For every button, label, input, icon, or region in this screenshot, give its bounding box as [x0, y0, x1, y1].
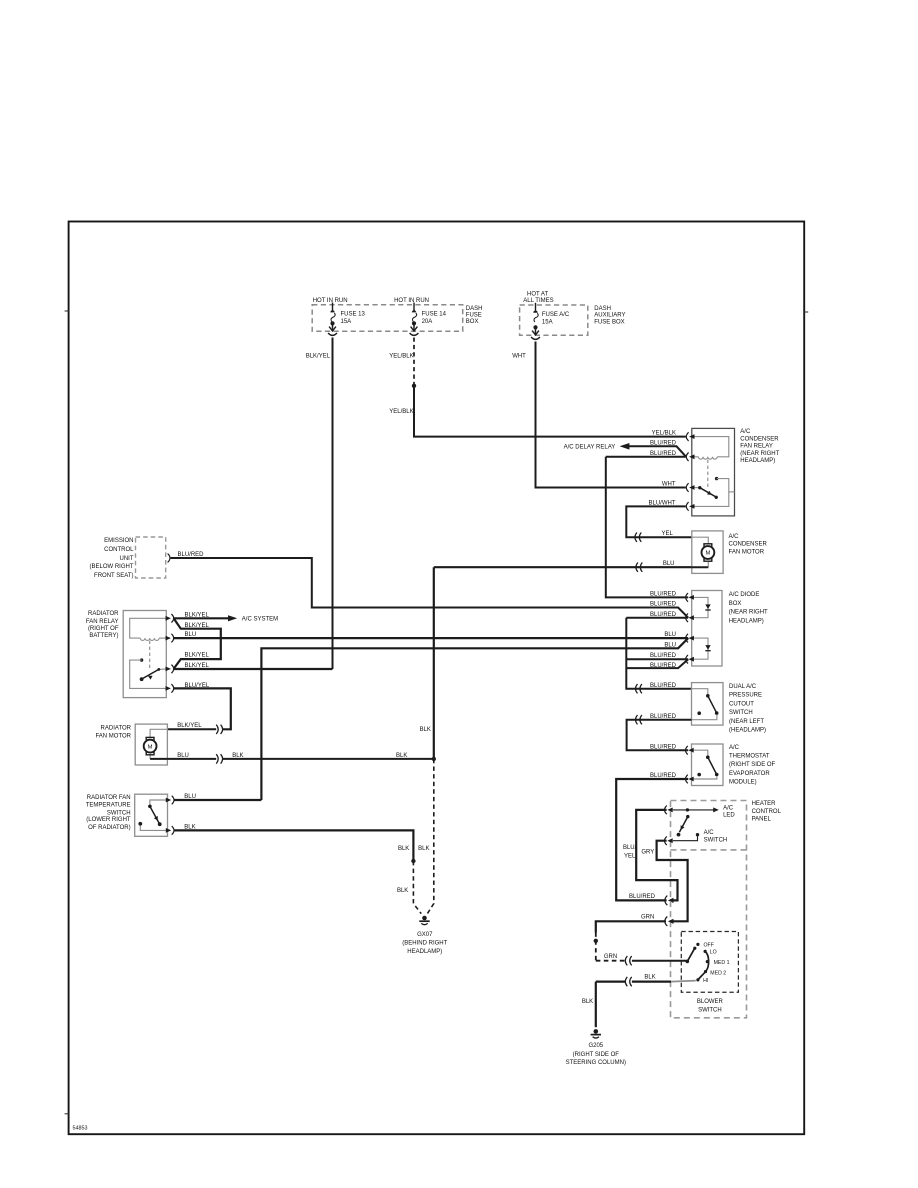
- wire BLK temp switch pin2: [174, 830, 414, 861]
- radiator fan motor box: [135, 724, 167, 765]
- A/C switch contact: [696, 833, 699, 836]
- svg-text:PANEL: PANEL: [752, 817, 772, 823]
- svg-text:MED 2: MED 2: [710, 971, 726, 977]
- svg-text:GRY: GRY: [641, 849, 654, 855]
- thermostat pin 2 connector: [686, 775, 694, 784]
- wire BLK/YEL motor pigtail: [167, 728, 216, 730]
- svg-text:A/C: A/C: [704, 830, 715, 836]
- junction BLK-ground splice: [411, 859, 415, 863]
- wire BLU motor pigtail: [167, 758, 216, 760]
- svg-text:BLK/YEL: BLK/YEL: [177, 723, 202, 729]
- svg-text:BLU/RED: BLU/RED: [650, 683, 677, 689]
- svg-text:DASH: DASH: [594, 306, 611, 312]
- svg-text:WHT: WHT: [662, 482, 676, 488]
- condenser relay pin 4 connector: [686, 502, 694, 511]
- svg-text:(RIGHT SIDE OF: (RIGHT SIDE OF: [573, 1052, 620, 1058]
- svg-text:BLK/YEL: BLK/YEL: [306, 353, 331, 359]
- svg-text:BLU: BLU: [177, 753, 189, 759]
- svg-text:BATTERY): BATTERY): [89, 633, 118, 639]
- diode box pin 2 connector: [686, 613, 694, 622]
- blade tip dot: [693, 947, 696, 950]
- wire BLU/RED from ECU to diode pin2: [171, 558, 689, 618]
- svg-text:BLK/YEL: BLK/YEL: [185, 623, 210, 629]
- wire BLK dashed to GX07: [427, 759, 433, 914]
- radiator relay coil: [140, 638, 159, 640]
- svg-text:(RIGHT SIDE OF: (RIGHT SIDE OF: [729, 762, 776, 768]
- svg-text:BLU/WHT: BLU/WHT: [649, 501, 676, 507]
- wire BLK/YEL loop pin1 to pin3: [174, 618, 221, 669]
- dual A/C pressure cutout switch box: [692, 683, 724, 726]
- svg-text:BLK/YEL: BLK/YEL: [185, 663, 210, 669]
- svg-text:A/C DELAY RELAY: A/C DELAY RELAY: [564, 445, 616, 451]
- svg-text:MED 1: MED 1: [714, 960, 730, 966]
- wire BLK/YEL to A/C SYSTEM: [174, 617, 229, 619]
- svg-text:15A: 15A: [542, 320, 553, 326]
- inline connector BLU-BLK: [216, 754, 222, 763]
- svg-text:HEATER: HEATER: [752, 801, 777, 807]
- svg-text:BLU/RED: BLU/RED: [650, 591, 677, 597]
- splice on YEL/BLK: [412, 384, 416, 388]
- relay stub pin: [729, 491, 735, 493]
- inline connector BLU/WHT-YEL: [635, 533, 641, 542]
- svg-text:CONTROL: CONTROL: [752, 809, 782, 815]
- wire GRN dashed to connector: [596, 960, 625, 962]
- svg-text:HOT AT: HOT AT: [527, 291, 548, 297]
- A/C switch common node: [686, 808, 689, 811]
- wire BLU/RED to diode pin4: [626, 658, 688, 660]
- radiator relay internal circuit: [130, 618, 167, 638]
- temp switch bottom contact: [138, 822, 142, 826]
- svg-text:M: M: [148, 744, 153, 750]
- blade tip dot: [158, 822, 162, 826]
- blower switch box (dashed): [681, 932, 738, 993]
- svg-text:GRN: GRN: [641, 915, 654, 921]
- wire GRY from A/C switch pin: [657, 841, 688, 922]
- A/C condenser fan motor box: [692, 531, 723, 574]
- motor lead: [692, 537, 709, 544]
- wire BLU/YEL radiator relay pin4: [174, 688, 231, 729]
- svg-text:YEL/BLK: YEL/BLK: [389, 409, 413, 415]
- thermostat blade: [708, 757, 717, 774]
- svg-text:MODULE): MODULE): [729, 780, 757, 786]
- svg-text:BLU/RED: BLU/RED: [650, 744, 677, 750]
- thermostat internal: [692, 750, 708, 755]
- diode box pin 4 connector: [686, 655, 694, 664]
- svg-text:OF RADIATOR): OF RADIATOR): [88, 825, 130, 831]
- A/C switch blade: [679, 817, 687, 833]
- svg-text:BLK: BLK: [396, 753, 407, 759]
- svg-text:BLK/YEL: BLK/YEL: [185, 612, 210, 618]
- wire BLK inside blower (gray): [671, 981, 696, 982]
- svg-text:LO: LO: [710, 949, 717, 955]
- blade arrow: [147, 674, 153, 680]
- svg-text:(NEAR LEFT: (NEAR LEFT: [729, 719, 764, 725]
- blower speed arc: [698, 951, 709, 980]
- wire GRN to blower switch: [632, 960, 687, 962]
- blade arrow: [679, 825, 685, 831]
- heater panel pin 1 connector (A/C LED): [665, 806, 673, 815]
- svg-text:BLU: BLU: [663, 561, 675, 567]
- svg-text:FRONT SEAT): FRONT SEAT): [94, 573, 133, 579]
- inline connector BLU: [636, 563, 642, 572]
- svg-text:BOX: BOX: [729, 601, 742, 607]
- pressure switch open contact: [697, 711, 701, 715]
- svg-text:BLU/RED: BLU/RED: [650, 451, 677, 457]
- svg-text:SWITCH: SWITCH: [698, 1007, 722, 1013]
- motor M symbol (radiator fan): [144, 737, 157, 754]
- temp switch pin 1 connector: [166, 796, 174, 805]
- svg-text:RADIATOR: RADIATOR: [88, 611, 119, 617]
- wire YEL/BLK to A/C condenser fan relay pin 1: [414, 386, 686, 437]
- svg-text:GX07: GX07: [417, 932, 433, 938]
- svg-text:FAN RELAY: FAN RELAY: [86, 619, 119, 625]
- svg-text:CONDENSER: CONDENSER: [740, 436, 779, 442]
- svg-text:FUSE 14: FUSE 14: [422, 311, 447, 317]
- svg-text:THERMOSTAT: THERMOSTAT: [729, 753, 770, 759]
- fuse 14 20A symbol: [410, 303, 419, 336]
- svg-text:(NEAR RIGHT: (NEAR RIGHT: [740, 451, 779, 457]
- svg-text:A/C SYSTEM: A/C SYSTEM: [242, 617, 278, 623]
- radiator relay pin 2 connector: [166, 634, 174, 643]
- condenser relay pin 3 connector: [686, 483, 694, 492]
- svg-text:(LOWER RIGHT: (LOWER RIGHT: [86, 817, 131, 823]
- diode box pin 3 connector: [686, 634, 694, 643]
- svg-text:YEL/BLK: YEL/BLK: [652, 431, 676, 437]
- svg-text:FUSE BOX: FUSE BOX: [594, 319, 624, 325]
- A/C switch wire: [673, 836, 698, 840]
- A/C diode box: [692, 591, 722, 667]
- svg-text:A/C DIODE: A/C DIODE: [729, 592, 760, 598]
- heater panel divider: [671, 849, 747, 851]
- radiator relay blade: [142, 669, 159, 679]
- wire BLU/RED to A/C DELAY RELAY: [629, 446, 686, 456]
- radiator relay pin 1 connector: [166, 614, 174, 623]
- thermostat top contact: [706, 755, 710, 759]
- svg-text:WHT: WHT: [512, 353, 526, 359]
- temp switch blade: [150, 806, 160, 823]
- wire WHT from fuse A/C to condenser relay pin 3: [536, 342, 686, 488]
- inline connector BLU/RED: [636, 715, 642, 724]
- diode D1: [705, 604, 710, 610]
- motor lead: [707, 561, 709, 567]
- condenser relay blade pivot: [698, 486, 701, 489]
- wire BLU/WHT from relay pin4 to YEL to condenser motor: [626, 506, 692, 537]
- radiator fan relay box: [123, 611, 166, 698]
- wire YEL/BLK dashed from fuse 14: [413, 338, 415, 386]
- motor lead: [150, 729, 167, 737]
- svg-text:BLU/: BLU/: [623, 845, 637, 851]
- ground GX07: [419, 916, 429, 925]
- blade arrow: [154, 816, 160, 822]
- wire BLU/RED thermostat pin2 down to heater panel splice: [616, 779, 688, 900]
- wire BLU to condenser fan motor: [434, 566, 692, 568]
- wire BLU inside motor box: [692, 566, 709, 568]
- svg-text:DASH: DASH: [466, 306, 483, 312]
- svg-text:LED: LED: [723, 813, 735, 819]
- pressure switch top contact: [706, 694, 710, 698]
- wire BLU radiator relay pin2 to diode pin3: [174, 637, 689, 639]
- svg-text:BLK: BLK: [184, 824, 195, 830]
- svg-text:BLOWER: BLOWER: [697, 999, 724, 1005]
- temp switch top contact: [148, 805, 152, 809]
- A/C thermostat box: [692, 744, 724, 786]
- relay actuation dashed link: [149, 641, 151, 668]
- svg-text:OFF: OFF: [704, 942, 714, 948]
- blade arrow: [707, 491, 713, 497]
- thermostat open contact: [697, 773, 701, 777]
- svg-text:BLK: BLK: [420, 727, 431, 733]
- svg-text:FAN MOTOR: FAN MOTOR: [729, 549, 765, 555]
- svg-text:SWITCH: SWITCH: [704, 838, 728, 844]
- condenser relay pin 1 connector: [686, 432, 694, 441]
- svg-text:M: M: [705, 551, 710, 557]
- condenser relay blade: [700, 488, 716, 497]
- condenser relay coil: [698, 457, 717, 459]
- blade tip dot: [715, 496, 718, 499]
- svg-text:CUTOUT: CUTOUT: [729, 701, 754, 707]
- svg-text:EVAPORATOR: EVAPORATOR: [729, 771, 770, 777]
- dash fuse box (dashed): [312, 305, 463, 332]
- svg-text:CONDENSER: CONDENSER: [729, 541, 768, 547]
- svg-text:HEADLAMP): HEADLAMP): [729, 618, 764, 624]
- wire GRN dashed: [595, 933, 597, 961]
- svg-text:DUAL A/C: DUAL A/C: [729, 684, 757, 690]
- temp switch pin 2 connector: [166, 826, 174, 835]
- svg-text:HEADLAMP): HEADLAMP): [407, 949, 442, 955]
- svg-text:BLK: BLK: [398, 846, 409, 852]
- svg-text:BLK: BLK: [644, 975, 655, 981]
- svg-text:(BELOW RIGHT: (BELOW RIGHT: [89, 564, 133, 570]
- wire BLK dashed to GX07: [413, 861, 421, 914]
- svg-text:20A: 20A: [422, 319, 433, 325]
- fuse 13 15A symbol: [328, 303, 337, 336]
- wire BLU/RED diode pin4 branch: [626, 659, 688, 668]
- blade tip dot: [715, 773, 719, 777]
- wire BLU/RED to diode pin2: [626, 617, 688, 619]
- svg-text:(BEHIND RIGHT: (BEHIND RIGHT: [402, 940, 447, 946]
- svg-text:FUSE A/C: FUSE A/C: [542, 312, 570, 318]
- wire BLK: [596, 980, 625, 982]
- svg-text:FAN MOTOR: FAN MOTOR: [95, 733, 131, 739]
- heater panel pin 2 connector (A/C switch): [665, 836, 673, 845]
- svg-text:UNIT: UNIT: [120, 556, 134, 562]
- pressure switch internal: [692, 689, 708, 694]
- wire BLK from blower switch: [632, 980, 671, 982]
- svg-text:(RIGHT OF: (RIGHT OF: [88, 626, 119, 632]
- svg-text:BLU/RED: BLU/RED: [629, 894, 656, 900]
- svg-text:YEL/BLK: YEL/BLK: [389, 353, 413, 359]
- svg-text:RADIATOR: RADIATOR: [101, 726, 132, 732]
- wire BLK/YEL to radiator fan relay pin 3: [174, 668, 333, 670]
- svg-text:BLU: BLU: [184, 794, 196, 800]
- ground G205: [591, 1029, 601, 1038]
- svg-text:FUSE: FUSE: [466, 312, 482, 318]
- wire BLK down to G205: [595, 982, 597, 1028]
- svg-text:BLK/YEL: BLK/YEL: [185, 652, 210, 658]
- inline connector BLU/RED: [636, 684, 642, 693]
- svg-text:HOT IN RUN: HOT IN RUN: [394, 298, 429, 304]
- wire BLU/RED pressure switch to thermostat: [627, 720, 692, 751]
- temperature switch internal: [150, 800, 168, 804]
- wire BLK/YEL from fuse 13 down: [332, 338, 334, 670]
- blower switch blade: [687, 948, 694, 961]
- svg-text:BLU/RED: BLU/RED: [650, 440, 677, 446]
- blade tip dot: [140, 677, 144, 681]
- splice on GRN: [594, 939, 598, 943]
- inline connector BLU/YEL-BLK/YEL: [216, 725, 222, 734]
- radiator relay fixed contact: [140, 658, 143, 661]
- emission control unit box (dashed): [136, 537, 166, 578]
- motor M symbol (A/C condenser fan): [702, 544, 715, 561]
- svg-text:PRESSURE: PRESSURE: [729, 693, 762, 699]
- page border frame: [69, 222, 805, 1135]
- svg-text:BLK: BLK: [397, 888, 408, 894]
- blower switch common: [686, 960, 690, 964]
- condenser relay pin 2 connector: [686, 453, 694, 462]
- svg-text:CONTROL: CONTROL: [104, 547, 134, 553]
- pressure switch blade: [708, 696, 717, 713]
- radiator relay blade pivot: [157, 668, 160, 671]
- svg-text:BLU: BLU: [185, 632, 197, 638]
- wire BLU temperature switch to diode pin3: [261, 638, 688, 800]
- wire BLU/RED relay pin2 down to diode box pin1: [606, 457, 688, 598]
- contact OFF: [696, 943, 699, 946]
- A/C condenser fan relay box: [692, 428, 735, 516]
- svg-text:RADIATOR FAN: RADIATOR FAN: [87, 795, 131, 801]
- wire BLU/RED down to pressure cutout switch: [626, 618, 691, 689]
- svg-text:54853: 54853: [73, 1126, 88, 1132]
- inline connector BLU/RED-BLU/YEL: [665, 896, 674, 906]
- wire BLK down to ground GX07: [433, 567, 435, 759]
- svg-text:G205: G205: [588, 1043, 603, 1049]
- blade tip dot: [715, 711, 719, 715]
- svg-text:BLK: BLK: [418, 846, 429, 852]
- wire BLU inside motor box: [150, 758, 167, 760]
- svg-text:A/C: A/C: [740, 429, 751, 435]
- contact HI: [696, 978, 699, 981]
- svg-text:A/C: A/C: [729, 745, 740, 751]
- svg-text:FUSE 13: FUSE 13: [341, 311, 366, 317]
- svg-text:15A: 15A: [341, 319, 352, 325]
- heater control panel box (dashed): [671, 801, 747, 1018]
- svg-text:SWITCH: SWITCH: [107, 810, 131, 816]
- motor lead: [149, 753, 151, 759]
- wire BLU/RED condenser relay pin2: [606, 456, 686, 458]
- svg-text:HI: HI: [703, 978, 708, 984]
- A/C LED circuit: [673, 809, 714, 811]
- relay actuation dashed link: [707, 460, 709, 487]
- contact MED 1: [706, 960, 709, 963]
- radiator fan temperature switch box: [135, 794, 168, 836]
- diode D2: [705, 645, 710, 651]
- svg-text:BOX: BOX: [466, 319, 479, 325]
- inline connector BLK: [625, 977, 631, 986]
- thermostat pin 1 connector: [686, 746, 694, 755]
- diode 1 internal: [692, 597, 708, 617]
- svg-text:(HEADLAMP): (HEADLAMP): [729, 728, 766, 734]
- svg-text:BLK: BLK: [232, 753, 243, 759]
- svg-text:HOT IN RUN: HOT IN RUN: [313, 298, 348, 304]
- svg-text:BLU/RED: BLU/RED: [650, 714, 677, 720]
- arrowhead to A/C delay relay: [620, 443, 630, 450]
- wire BLU/YEL from A/C LED pin: [636, 810, 677, 901]
- contact MED 2: [704, 970, 707, 973]
- diode box pin 1 connector: [686, 593, 694, 602]
- condenser relay fixed contact: [715, 477, 718, 480]
- wire BLK to ground junction: [222, 758, 433, 760]
- svg-text:BLK: BLK: [582, 999, 593, 1005]
- junction BLK wires: [432, 757, 436, 761]
- dash auxiliary fuse box (dashed): [520, 305, 588, 335]
- svg-text:STEERING COLUMN): STEERING COLUMN): [566, 1060, 626, 1066]
- svg-text:FAN RELAY: FAN RELAY: [740, 444, 773, 450]
- svg-text:GRN: GRN: [604, 954, 617, 960]
- arrowhead A/C SYSTEM: [228, 615, 237, 621]
- svg-text:SWITCH: SWITCH: [729, 710, 753, 716]
- svg-text:HEADLAMP): HEADLAMP): [740, 458, 775, 464]
- fuse A/C 15A symbol: [531, 303, 540, 340]
- svg-text:EMISSION: EMISSION: [104, 538, 133, 544]
- wire GRN from connector: [596, 921, 666, 932]
- svg-text:ALL TIMES: ALL TIMES: [523, 298, 553, 304]
- ECU pin connector arc: [168, 554, 170, 563]
- inline connector GRY-GRN: [665, 917, 674, 927]
- svg-text:YEL: YEL: [624, 854, 636, 860]
- svg-text:BLU/RED: BLU/RED: [178, 552, 205, 558]
- contact LO: [704, 950, 707, 953]
- svg-text:BLU/YEL: BLU/YEL: [185, 683, 210, 689]
- diode 2 internal: [692, 638, 708, 659]
- radiator relay pin 4 connector: [166, 684, 174, 693]
- inline connector GRN: [625, 956, 631, 965]
- radiator relay pin 3 connector: [166, 665, 174, 674]
- svg-text:AUXILIARY: AUXILIARY: [594, 313, 625, 319]
- svg-text:A/C: A/C: [723, 806, 734, 812]
- condenser relay internal circuit: [692, 437, 729, 457]
- svg-text:TEMPERATURE: TEMPERATURE: [86, 803, 131, 809]
- svg-text:A/C: A/C: [729, 534, 740, 540]
- A/C switch blade tip dot: [677, 833, 681, 837]
- svg-text:YEL: YEL: [661, 531, 673, 537]
- A/C switch blade top: [686, 815, 689, 818]
- wire BLU temp switch pin1: [174, 799, 262, 801]
- svg-text:(NEAR RIGHT: (NEAR RIGHT: [729, 610, 768, 616]
